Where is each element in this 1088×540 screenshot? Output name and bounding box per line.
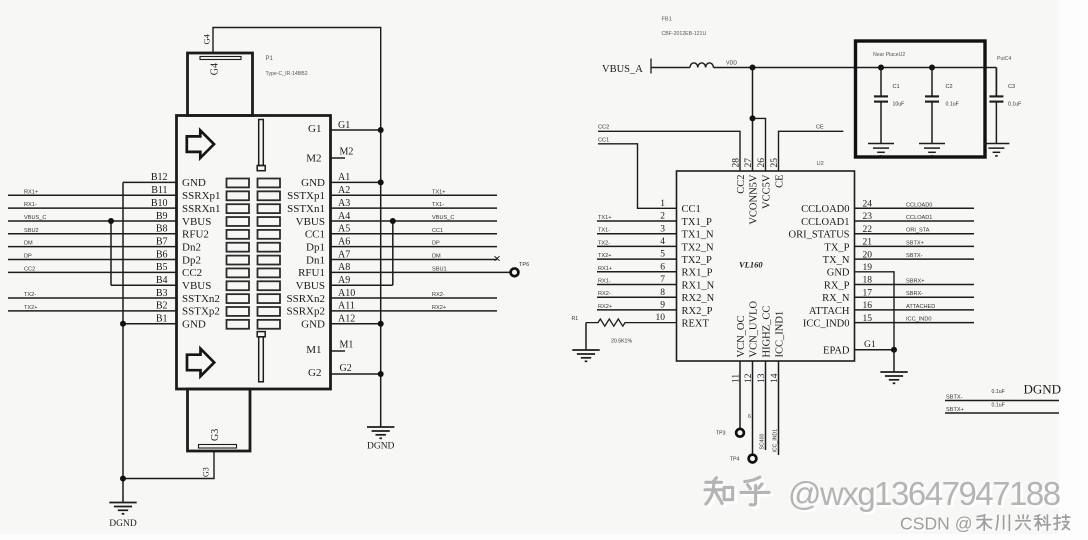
svg-text:RX2+: RX2+ (432, 305, 446, 311)
wire A4 to A9 vertical (392, 221, 394, 285)
wire pin 24 (855, 207, 975, 209)
IC top pin names rotated (736, 174, 786, 225)
svg-text:SC400: SC400 (760, 434, 766, 450)
wire pin 23 (855, 220, 975, 222)
svg-text:5: 5 (660, 250, 665, 260)
svg-text:8: 8 (660, 288, 665, 298)
svg-text:B9: B9 (156, 211, 168, 222)
svg-text:6: 6 (660, 262, 665, 272)
junction A1 (378, 179, 384, 185)
svg-text:GND: GND (827, 268, 850, 279)
svg-text:M1: M1 (306, 344, 321, 356)
svg-text:7: 7 (660, 275, 665, 285)
svg-text:VCC5V: VCC5V (761, 174, 772, 209)
wire VDD to VCONN5V (752, 68, 754, 172)
svg-text:TP3: TP3 (716, 431, 726, 437)
svg-text:3: 3 (660, 224, 665, 234)
tab G4 inner pad (200, 57, 241, 60)
pin B2 wire (8, 310, 177, 312)
wire pin 9 (597, 309, 677, 311)
svg-text:B7: B7 (156, 236, 168, 247)
wire SBTX- bottom (945, 400, 1059, 402)
no-connect mark DM (495, 256, 500, 261)
svg-text:TX1+: TX1+ (598, 215, 612, 221)
shell tab G3 (188, 389, 251, 451)
svg-text:RX2-: RX2- (432, 292, 445, 298)
svg-text:DGND: DGND (367, 441, 395, 451)
svg-text:RX1-: RX1- (24, 202, 37, 208)
svg-text:B5: B5 (156, 262, 168, 273)
ground C3 (983, 143, 1009, 145)
junction B1 ground (120, 321, 126, 327)
wire pin 7 (597, 284, 677, 286)
ground C1 (868, 143, 894, 145)
wire pin 11 to TP3 (739, 361, 741, 429)
svg-text:VCN_OC: VCN_OC (736, 315, 747, 357)
wire pin 14 (778, 361, 780, 455)
svg-text:C1: C1 (893, 84, 900, 90)
ground DGND right of connector (367, 426, 394, 428)
svg-text:C2: C2 (946, 84, 953, 90)
wire pin 4 (597, 245, 677, 247)
wire VBUS_A to bead (651, 67, 690, 69)
svg-text:TX1_P: TX1_P (682, 217, 712, 228)
svg-text:0.1uF: 0.1uF (992, 389, 1005, 395)
svg-text:TX1-: TX1- (598, 228, 610, 234)
svg-text:M2: M2 (340, 147, 354, 158)
capacitor C3 (995, 68, 997, 97)
svg-text:RX1+: RX1+ (598, 266, 612, 272)
wire pin 15 (855, 322, 975, 324)
capacitor C2 (931, 68, 933, 97)
contact pads left column (227, 179, 250, 329)
wire to VCC5V (753, 118, 766, 171)
svg-text:1: 1 (660, 199, 665, 209)
svg-text:CCLOAD0: CCLOAD0 (906, 202, 932, 208)
wire pin 3 (597, 233, 677, 235)
svg-text:FB1: FB1 (662, 17, 672, 23)
wire CE (779, 131, 844, 171)
svg-text:SBRX-: SBRX- (906, 291, 923, 297)
wire R1 to ground (585, 323, 587, 350)
svg-text:VBUS: VBUS (296, 280, 325, 292)
svg-text:10: 10 (656, 313, 666, 323)
svg-text:RX_P: RX_P (824, 280, 850, 291)
pin B6 wire (8, 259, 177, 261)
svg-text:TP4: TP4 (730, 457, 740, 463)
pin A10 wire (331, 297, 498, 299)
svg-text:CCLOAD1: CCLOAD1 (906, 215, 932, 221)
svg-text:A9: A9 (338, 275, 350, 286)
wire pin 5 (597, 258, 677, 260)
svg-text:VL160: VL160 (739, 260, 763, 270)
svg-text:A3: A3 (338, 198, 350, 209)
pin A9 wire (331, 284, 393, 286)
wire pin 8 (597, 296, 677, 298)
ground C2 (919, 143, 945, 145)
svg-text:DGND: DGND (109, 519, 137, 529)
svg-text:EPAD: EPAD (823, 346, 850, 357)
wire pin 22 (855, 233, 975, 235)
pin B5 wire (8, 271, 177, 273)
pin A6 wire (331, 246, 498, 248)
svg-text:G2: G2 (340, 363, 352, 374)
pin B3 wire (8, 297, 177, 299)
pin names left column (182, 177, 221, 330)
svg-text:SBTX+: SBTX+ (906, 240, 924, 246)
svg-text:DGND: DGND (1024, 382, 1062, 397)
svg-text:TX1_N: TX1_N (682, 230, 714, 241)
svg-text:G3: G3 (202, 467, 211, 477)
svg-text:PutC4: PutC4 (997, 56, 1012, 62)
watermark csdn (900, 514, 1071, 536)
svg-text:B1: B1 (156, 314, 168, 325)
junction C1 (878, 65, 884, 71)
pin names right column (286, 177, 325, 330)
svg-text:HIGHZ_CC: HIGHZ_CC (761, 306, 772, 358)
svg-text:A4: A4 (338, 211, 350, 222)
svg-text:CC1: CC1 (305, 229, 325, 241)
pin B1 wire (123, 323, 177, 325)
svg-text:ORI_STA: ORI_STA (906, 228, 930, 234)
svg-text:RX2_P: RX2_P (682, 306, 713, 317)
wire pin 17 (855, 296, 975, 298)
svg-text:SBU2: SBU2 (24, 228, 39, 234)
svg-text:B6: B6 (156, 249, 168, 260)
pin B11 wire (8, 194, 177, 196)
IC top pin numbers (731, 158, 780, 168)
pin G2 wire (331, 373, 381, 375)
svg-text:CC2: CC2 (24, 266, 35, 272)
svg-text:ICC_IND0: ICC_IND0 (906, 317, 932, 323)
svg-text:@wxg13647947188: @wxg13647947188 (788, 475, 1060, 512)
wire pin 21 (855, 245, 975, 247)
svg-text:TX2+: TX2+ (598, 253, 612, 259)
svg-text:SBRX+: SBRX+ (906, 279, 925, 285)
junction EPAD ground (891, 347, 897, 353)
svg-text:RX1-: RX1- (598, 279, 611, 285)
ground DGND left (109, 502, 136, 504)
svg-text:DM: DM (24, 241, 33, 247)
svg-text:A8: A8 (338, 262, 350, 273)
IC left pin names (682, 204, 715, 329)
svg-text:B11: B11 (151, 185, 167, 196)
pin B10 wire (8, 207, 177, 209)
wire pin 20 (855, 258, 975, 260)
wire to C3 (995, 68, 997, 97)
ferrite bead FB1 (690, 63, 713, 68)
svg-text:CC1: CC1 (598, 138, 609, 144)
wire VDD rail (713, 67, 996, 69)
svg-text:2: 2 (660, 212, 665, 222)
svg-text:CE: CE (816, 125, 824, 131)
svg-text:CC1: CC1 (432, 228, 443, 234)
svg-text:G2: G2 (308, 367, 321, 379)
svg-text:10uF: 10uF (893, 102, 905, 108)
arrow symbol bottom (187, 349, 214, 377)
svg-text:VBUS: VBUS (182, 216, 211, 228)
svg-text:B4: B4 (156, 275, 168, 286)
junction G2 (378, 371, 384, 377)
wire pin 2 (597, 220, 677, 222)
svg-text:DM: DM (432, 254, 441, 260)
svg-text:CSDN @: CSDN @ (900, 514, 973, 534)
junction A12 (378, 321, 384, 327)
svg-text:ATTACH: ATTACH (809, 306, 850, 317)
svg-text:RX1+: RX1+ (24, 189, 38, 195)
capacitor group box (856, 41, 986, 157)
test point TP3 (736, 429, 744, 437)
svg-text:REXT: REXT (682, 319, 710, 330)
pin M2 wire (331, 157, 346, 159)
wire VBUS_C to B4 vertical (110, 221, 112, 285)
pin B7 wire (8, 246, 177, 248)
svg-text:A10: A10 (338, 288, 355, 299)
svg-text:Dp2: Dp2 (182, 254, 201, 266)
svg-text:RX2_N: RX2_N (682, 293, 715, 304)
pin A8 wire (331, 271, 511, 273)
wire pin 6 (597, 271, 677, 273)
IC left pin numbers (656, 199, 666, 323)
svg-text:SBTX-: SBTX- (906, 253, 923, 259)
svg-text:VCN_UVLO: VCN_UVLO (748, 301, 759, 358)
svg-text:G3: G3 (210, 429, 221, 441)
svg-text:CC2: CC2 (182, 267, 202, 279)
svg-text:SSTXp1: SSTXp1 (287, 190, 325, 202)
svg-text:TX2-: TX2- (598, 240, 610, 246)
svg-text:0.1uF: 0.1uF (992, 403, 1005, 409)
svg-text:R1: R1 (572, 316, 579, 322)
svg-text:SSRXn2: SSRXn2 (286, 293, 325, 305)
junction A4 (390, 218, 396, 224)
svg-text:ORI_STATUS: ORI_STATUS (788, 230, 849, 241)
svg-text:B2: B2 (156, 301, 168, 312)
svg-text:0.1uF: 0.1uF (946, 102, 959, 108)
svg-text:P1: P1 (266, 56, 274, 62)
svg-text:SSTXn2: SSTXn2 (182, 293, 220, 305)
test point TP4 (749, 455, 757, 463)
svg-text:DP: DP (432, 241, 440, 247)
svg-text:SBU1: SBU1 (432, 266, 447, 272)
arrow symbol top (187, 130, 214, 158)
svg-text:GND: GND (301, 177, 325, 189)
pin A7 wire (331, 259, 498, 261)
pin B4 wire (111, 284, 177, 286)
svg-text:A7: A7 (338, 249, 350, 260)
svg-text:VBUS_A: VBUS_A (602, 64, 643, 75)
pin G1 wire (331, 129, 381, 131)
wire right ground bus (380, 130, 382, 427)
svg-text:ATTACHED: ATTACHED (906, 304, 935, 310)
contact pads right column (258, 179, 281, 329)
test point TP6 (511, 268, 519, 276)
IC bottom pin names rotated (736, 301, 786, 358)
svg-text:RX1_N: RX1_N (682, 280, 715, 291)
svg-text:Near PlaceU2: Near PlaceU2 (873, 52, 905, 58)
pin A12 wire (331, 323, 381, 325)
ground DGND right (880, 371, 907, 373)
svg-text:SSTXn1: SSTXn1 (287, 203, 325, 215)
svg-text:TX_P: TX_P (824, 242, 849, 253)
svg-text:VBUS_C: VBUS_C (432, 215, 454, 221)
pin M1 wire (331, 350, 346, 352)
svg-text:6: 6 (748, 414, 751, 420)
svg-text:CCLOAD1: CCLOAD1 (801, 217, 849, 228)
wire pin 19 GND (855, 272, 895, 350)
svg-text:0.1uF: 0.1uF (1008, 102, 1021, 108)
junction VCONN VCC (750, 115, 756, 121)
IC right pin names (788, 204, 849, 329)
pin B8 wire (8, 233, 177, 235)
wire G3 tab to ground (123, 451, 214, 479)
svg-text:M1: M1 (340, 340, 354, 351)
junction VBUS_C B9 (108, 218, 114, 224)
svg-text:RFU1: RFU1 (298, 267, 325, 279)
svg-text:CCLOAD0: CCLOAD0 (801, 204, 849, 215)
svg-text:TX2_N: TX2_N (682, 242, 714, 253)
junction G3 ground (120, 476, 126, 482)
svg-text:U2: U2 (817, 161, 824, 167)
svg-text:A12: A12 (338, 314, 355, 325)
svg-text:VBUS: VBUS (182, 280, 211, 292)
pin A3 wire (331, 207, 498, 209)
svg-text:RX_N: RX_N (822, 293, 850, 304)
wire pin 18 (855, 284, 975, 286)
svg-text:SBTX+: SBTX+ (946, 407, 964, 413)
wire SBTX+ bottom (945, 412, 1059, 414)
watermark zhihu (705, 475, 1062, 515)
svg-text:CE: CE (774, 175, 785, 188)
svg-text:G4: G4 (202, 33, 212, 44)
tab G3 inner pad (199, 445, 237, 449)
svg-text:Dn2: Dn2 (182, 241, 201, 253)
shell tab G4 (188, 53, 253, 116)
svg-text:CC2: CC2 (598, 125, 609, 131)
svg-text:SSRXp2: SSRXp2 (286, 306, 325, 318)
wire CC1 to pin 1 (598, 144, 677, 209)
wire EPAD to ground (855, 349, 895, 351)
svg-text:G1: G1 (338, 120, 350, 131)
svg-text:RX2-: RX2- (598, 291, 611, 297)
svg-text:B3: B3 (156, 288, 168, 299)
ground R1 (572, 349, 599, 351)
svg-text:CC1: CC1 (682, 204, 701, 215)
svg-text:A1: A1 (338, 172, 350, 183)
svg-text:B10: B10 (151, 198, 168, 209)
svg-text:G1: G1 (308, 123, 321, 135)
svg-text:B8: B8 (156, 224, 168, 235)
svg-text:ICC_IND0: ICC_IND0 (803, 319, 850, 330)
wire pin 12 to TP4 (752, 361, 754, 455)
svg-text:9: 9 (660, 301, 665, 311)
pin A4 wire (331, 220, 498, 222)
svg-text:A5: A5 (338, 224, 350, 235)
pin A2 wire (331, 194, 498, 196)
svg-text:RX2+: RX2+ (598, 304, 612, 310)
svg-text:TX1+: TX1+ (432, 189, 446, 195)
pin B9 wire (8, 220, 177, 222)
svg-text:SSRXp1: SSRXp1 (182, 190, 221, 202)
svg-text:SSRXn1: SSRXn1 (182, 203, 221, 215)
pin B12 wire (123, 181, 177, 183)
svg-text:RX1_P: RX1_P (682, 268, 713, 279)
svg-text:ICC_IND1: ICC_IND1 (774, 311, 785, 358)
wire pin 13 (765, 361, 767, 450)
svg-text:SSTXp2: SSTXp2 (182, 306, 220, 318)
svg-text:B12: B12 (151, 172, 168, 183)
svg-text:TX2+: TX2+ (24, 305, 38, 311)
svg-text:VBUS_C: VBUS_C (24, 215, 46, 221)
wire G4 to G1 top (213, 28, 381, 131)
junction C2 (929, 65, 935, 71)
svg-text:TX1-: TX1- (432, 202, 444, 208)
svg-text:RFU2: RFU2 (182, 229, 209, 241)
svg-text:VCONN5V: VCONN5V (748, 174, 759, 225)
IC right pin numbers (863, 200, 873, 324)
wire pin 16 (855, 309, 975, 311)
svg-text:CC2: CC2 (736, 175, 747, 194)
svg-text:A11: A11 (338, 301, 355, 312)
svg-text:20.5K1%: 20.5K1% (611, 339, 632, 345)
capacitor C1 (880, 68, 882, 97)
svg-text:M2: M2 (306, 152, 321, 164)
svg-text:G4: G4 (210, 63, 221, 75)
wire left ground vertical (122, 182, 124, 502)
connector tongue bar bottom (257, 332, 265, 337)
svg-text:DP: DP (24, 254, 32, 260)
svg-text:G1: G1 (864, 340, 876, 350)
svg-text:TP6: TP6 (519, 262, 529, 268)
junction G1 (378, 127, 384, 133)
junction VDD (750, 65, 756, 71)
svg-text:Type-C_IR-14BB2: Type-C_IR-14BB2 (266, 71, 308, 77)
svg-text:Dn1: Dn1 (306, 254, 325, 266)
svg-text:SBTX-: SBTX- (946, 394, 963, 400)
svg-text:A6: A6 (338, 236, 350, 247)
svg-text:CBF-2012EB-121U: CBF-2012EB-121U (662, 31, 707, 37)
IC bottom pin numbers (731, 373, 780, 383)
connector P1 body (177, 116, 331, 390)
resistor R1 (586, 319, 677, 326)
IC U2 body (677, 171, 855, 361)
wire down to DGND right (893, 350, 895, 372)
svg-text:VBUS: VBUS (296, 216, 325, 228)
svg-text:GND: GND (301, 319, 325, 331)
pin A11 wire (331, 310, 498, 312)
svg-text:Dp1: Dp1 (306, 241, 325, 253)
svg-text:TX2_P: TX2_P (682, 255, 712, 266)
svg-text:VDD: VDD (726, 61, 737, 67)
svg-text:C3: C3 (1008, 84, 1015, 90)
svg-text:A2: A2 (338, 185, 350, 196)
svg-text:TX_N: TX_N (823, 255, 850, 266)
wire CC2 to pin 28 (598, 131, 740, 171)
svg-text:ICC_IND1: ICC_IND1 (773, 429, 779, 453)
pin A5 wire (331, 233, 498, 235)
svg-text:4: 4 (660, 237, 665, 247)
pin A1 wire (331, 181, 381, 183)
svg-text:GND: GND (182, 177, 206, 189)
svg-text:TX2-: TX2- (24, 292, 36, 298)
svg-text:GND: GND (182, 319, 206, 331)
connector tongue bar top (259, 120, 264, 166)
